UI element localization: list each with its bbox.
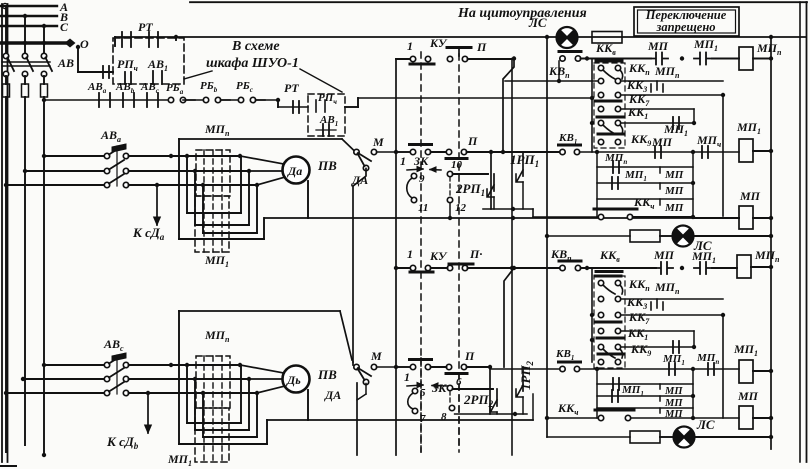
svg-text:1: 1 bbox=[407, 247, 413, 261]
svg-text:МП: МП bbox=[664, 398, 683, 409]
svg-text:ЛС: ЛС bbox=[696, 417, 715, 432]
svg-text:На щитоуправления: На щитоуправления bbox=[457, 6, 587, 21]
svg-text:МП: МП bbox=[664, 202, 684, 214]
svg-text:КУ: КУ bbox=[429, 249, 448, 263]
svg-text:12: 12 bbox=[455, 202, 467, 214]
svg-text:М: М bbox=[372, 135, 384, 149]
svg-text:П: П bbox=[476, 40, 487, 54]
svg-text:П: П bbox=[467, 134, 478, 148]
svg-text:МП: МП bbox=[647, 39, 669, 53]
svg-text:8: 8 bbox=[441, 411, 447, 423]
svg-text:ДА: ДА bbox=[324, 388, 341, 402]
svg-text:1: 1 bbox=[400, 154, 406, 168]
svg-text:В схеме: В схеме bbox=[231, 39, 280, 54]
svg-text:МП: МП bbox=[664, 386, 683, 397]
svg-text:запрещено: запрещено bbox=[655, 20, 715, 34]
svg-text:Да: Да bbox=[287, 164, 302, 178]
svg-text:РТ: РТ bbox=[284, 81, 299, 95]
svg-text:Дь: Дь bbox=[286, 373, 301, 387]
svg-text:МП: МП bbox=[664, 169, 684, 181]
svg-text:9: 9 bbox=[419, 173, 425, 185]
svg-text:шкафа ШУО-1: шкафа ШУО-1 bbox=[206, 56, 299, 71]
svg-text:МП: МП bbox=[653, 248, 675, 262]
svg-text:ЛС: ЛС bbox=[528, 15, 547, 30]
svg-text:11: 11 bbox=[418, 202, 428, 214]
svg-text:10: 10 bbox=[451, 159, 463, 171]
svg-text:О: О bbox=[80, 37, 89, 51]
svg-text:ПВ: ПВ bbox=[317, 158, 337, 173]
svg-text:МП: МП bbox=[664, 185, 684, 197]
svg-text:ЗК: ЗК bbox=[431, 381, 447, 395]
svg-text:М: М bbox=[370, 349, 382, 363]
svg-text:МП: МП bbox=[737, 389, 759, 403]
svg-text:1: 1 bbox=[407, 39, 413, 53]
svg-text:РТ: РТ bbox=[138, 20, 153, 34]
svg-text:П: П bbox=[464, 349, 475, 363]
svg-text:МП: МП bbox=[739, 189, 761, 203]
svg-text:ПВ: ПВ bbox=[317, 367, 337, 382]
svg-text:П·: П· bbox=[469, 247, 482, 261]
svg-text:1: 1 bbox=[404, 370, 410, 384]
svg-text:КУ: КУ bbox=[429, 36, 448, 50]
svg-text:АВ: АВ bbox=[57, 56, 74, 70]
svg-text:С: С bbox=[60, 20, 69, 34]
